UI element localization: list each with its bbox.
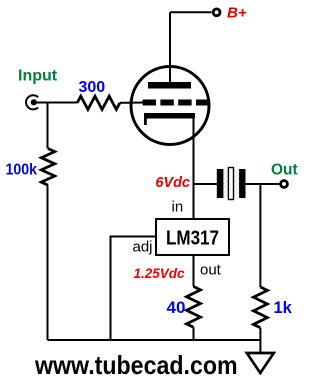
resistor 1k: [253, 287, 267, 328]
resistor 100k: [41, 149, 54, 186]
svg-text:out: out: [200, 262, 222, 279]
wire B+ horizontal: [170, 11, 212, 13]
capacitor C1: [217, 168, 246, 200]
wire input to grid resistor: [34, 102, 77, 104]
svg-text:Out: Out: [271, 162, 298, 179]
resistor 40: [187, 287, 201, 328]
svg-text:40: 40: [167, 298, 186, 317]
ground bus wire: [48, 339, 261, 341]
svg-text:adj: adj: [133, 239, 153, 256]
wire grid lead: [120, 102, 143, 104]
wire cathode to LM317 in: [193, 115, 195, 219]
svg-text:1.25Vdc: 1.25Vdc: [133, 266, 185, 281]
svg-text:300: 300: [79, 79, 106, 96]
input jack J1: [26, 95, 38, 109]
svg-text:LM317: LM317: [166, 228, 219, 250]
B+ terminal: [213, 9, 220, 16]
wire 1k to ground: [259, 328, 261, 353]
wire out pin: [193, 255, 195, 287]
wire 40 to ground bus: [193, 327, 195, 340]
svg-text:www.tubecad.com: www.tubecad.com: [34, 350, 237, 380]
wire input node vertical: [47, 103, 49, 149]
Out terminal: [281, 181, 288, 188]
triode plate: [148, 82, 191, 89]
triode cathode: [144, 113, 195, 125]
ground symbol: [247, 353, 274, 373]
svg-text:100k: 100k: [6, 162, 38, 179]
resistor 300: [77, 96, 120, 109]
wire adj: [111, 237, 157, 341]
svg-text:6Vdc: 6Vdc: [155, 175, 190, 191]
svg-text:1k: 1k: [274, 299, 293, 317]
wire 1k branch vertical: [259, 184, 261, 287]
wire capacitor to Out: [246, 183, 280, 185]
op regulator U1 LM317 box: [156, 219, 229, 255]
triode grid (dashed): [143, 100, 208, 106]
wire anode lead vertical: [169, 12, 171, 84]
svg-text:B+: B+: [227, 5, 247, 22]
svg-text:in: in: [172, 198, 184, 215]
wire 100k to ground bus: [47, 185, 49, 340]
triode V1 envelope: [131, 67, 209, 145]
svg-text:Input: Input: [18, 68, 58, 85]
wire to capacitor: [194, 183, 217, 185]
